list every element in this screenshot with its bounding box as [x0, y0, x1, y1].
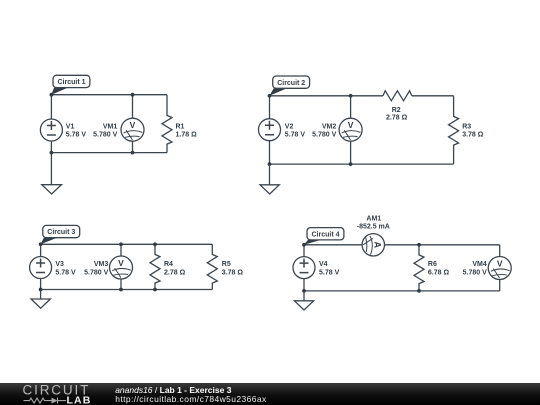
node dot C3 bottom VM3	[119, 288, 123, 292]
svg-text:5.78 V: 5.78 V	[55, 270, 76, 277]
voltmeter VM1	[93, 118, 144, 141]
svg-text:VM4: VM4	[472, 261, 487, 268]
svg-text:2.78 Ω: 2.78 Ω	[164, 270, 186, 277]
wire left rail bottom C1	[50, 141, 52, 153]
wire VM1 stem top	[132, 95, 134, 119]
CircuitLab logo squiggle (resistor + diode)	[24, 398, 67, 404]
flag label Circuit 2	[270, 76, 310, 96]
voltage source V3	[30, 257, 76, 279]
node dot C2 top VM2	[349, 94, 353, 98]
svg-text:Circuit 3: Circuit 3	[47, 229, 75, 236]
svg-text:R4: R4	[164, 261, 173, 268]
wire bottom rail C4	[304, 290, 500, 292]
wire top rail C1	[51, 94, 167, 96]
svg-text:Circuit 2: Circuit 2	[277, 80, 305, 87]
node dot C1 bottom-left	[50, 151, 54, 155]
wire left rail top C2	[269, 96, 271, 119]
svg-text:V1: V1	[66, 123, 75, 130]
wire left rail top C3	[40, 244, 42, 256]
svg-text:R2: R2	[392, 107, 401, 114]
wire VM4 stem top	[499, 245, 501, 257]
wire bottom rail C2	[270, 163, 454, 165]
wire top rail C2 left	[270, 95, 384, 97]
wire bottom rail C1	[51, 152, 167, 154]
svg-text:5.780 V: 5.780 V	[463, 270, 487, 277]
flag label Circuit 1	[51, 75, 90, 94]
svg-text:V: V	[497, 258, 503, 268]
svg-text:A: A	[373, 242, 383, 249]
svg-text:LAB: LAB	[67, 395, 92, 405]
svg-text:R3: R3	[462, 123, 471, 130]
voltmeter VM4	[463, 257, 512, 280]
svg-text:R6: R6	[428, 261, 437, 268]
node dot C3 top VM3	[119, 242, 123, 246]
svg-text:V: V	[118, 258, 124, 268]
ground C1	[42, 153, 62, 194]
svg-text:2.78 Ω: 2.78 Ω	[386, 115, 408, 122]
resistor R3	[449, 96, 484, 164]
svg-text:6.78 Ω: 6.78 Ω	[428, 270, 450, 277]
ground C4	[294, 291, 313, 310]
node dot C4 bottom R6	[417, 289, 421, 293]
svg-text:Circuit 4: Circuit 4	[311, 231, 339, 238]
svg-text:V: V	[348, 120, 354, 130]
wire bottom rail C3	[41, 289, 213, 291]
ground C2	[260, 164, 279, 194]
svg-text:5.780 V: 5.780 V	[84, 270, 108, 277]
svg-text:1.78 Ω: 1.78 Ω	[176, 132, 198, 139]
resistor R4	[150, 244, 186, 289]
svg-text:5.780 V: 5.780 V	[93, 132, 117, 139]
ammeter AM1	[357, 215, 390, 256]
flag label Circuit 3	[41, 225, 80, 244]
svg-text:R1: R1	[176, 123, 185, 130]
voltmeter VM2	[312, 118, 362, 141]
wire VM4 stem bottom	[499, 280, 501, 291]
wire left rail top C4	[303, 245, 305, 257]
node dot C4 top-left	[302, 243, 306, 247]
node dot C3 bottom-left	[39, 288, 43, 292]
node dot C4 bottom-left	[302, 289, 306, 293]
wire top rail C4 right	[384, 244, 499, 246]
svg-text:V4: V4	[319, 261, 328, 268]
voltage source V4	[293, 257, 340, 279]
wire VM3 stem top	[120, 244, 122, 256]
svg-text:V2: V2	[285, 123, 294, 130]
wire VM2 stem bottom	[350, 141, 352, 164]
svg-text:3.78 Ω: 3.78 Ω	[222, 270, 244, 277]
svg-text:VM3: VM3	[94, 261, 109, 268]
wire left rail bottom C4	[303, 279, 305, 291]
resistor R6	[414, 245, 449, 291]
svg-text:3.78 Ω: 3.78 Ω	[462, 132, 484, 139]
wire left rail bottom C3	[40, 279, 42, 290]
node dot C1 top VM1	[131, 93, 135, 97]
wire left rail top C1	[50, 95, 52, 119]
resistor R5	[207, 244, 243, 289]
svg-text:VM1: VM1	[103, 123, 118, 130]
node dot C2 top-left	[268, 94, 272, 98]
node dot C4 top R6	[417, 243, 421, 247]
wire top rail C2 right	[412, 95, 454, 97]
node dot C1 top-left	[50, 93, 54, 97]
flag label Circuit 4	[304, 228, 344, 245]
wire top rail C4 left	[304, 244, 362, 246]
footer bar	[0, 383, 540, 405]
svg-text:VM2: VM2	[322, 123, 337, 130]
node dot C1 bottom VM1	[131, 151, 135, 155]
node dot C2 bottom-left	[268, 162, 272, 166]
wire VM3 stem bottom	[120, 279, 122, 290]
voltmeter VM3	[84, 256, 132, 279]
svg-text:5.78 V: 5.78 V	[319, 270, 340, 277]
node dot C3 bottom R4	[153, 288, 157, 292]
wire left rail bottom C2	[269, 141, 271, 164]
resistor R2	[383, 91, 412, 122]
svg-text:R5: R5	[222, 261, 231, 268]
wire VM1 stem bottom	[132, 141, 134, 152]
svg-text:AM1: AM1	[366, 215, 381, 222]
wire VM2 stem top	[350, 96, 352, 118]
node dot C2 bottom VM2	[349, 162, 353, 166]
resistor R1	[162, 95, 197, 153]
svg-text:Circuit 1: Circuit 1	[57, 79, 85, 86]
ground C3	[31, 290, 50, 309]
node dot C3 top-left	[39, 242, 43, 246]
svg-text:5.78 V: 5.78 V	[285, 132, 306, 139]
svg-text:5.780 V: 5.780 V	[312, 132, 336, 139]
svg-text:-852.5 mA: -852.5 mA	[357, 224, 390, 231]
svg-text:http://circuitlab.com/c784w5u2: http://circuitlab.com/c784w5u2366ax	[115, 394, 267, 404]
svg-text:5.78 V: 5.78 V	[66, 132, 87, 139]
wire top rail C3	[41, 243, 213, 245]
svg-text:V: V	[130, 120, 136, 130]
svg-text:V3: V3	[55, 261, 64, 268]
node dot C3 top R4	[153, 242, 157, 246]
voltage source V2	[259, 119, 306, 141]
voltage source V1	[40, 119, 86, 141]
